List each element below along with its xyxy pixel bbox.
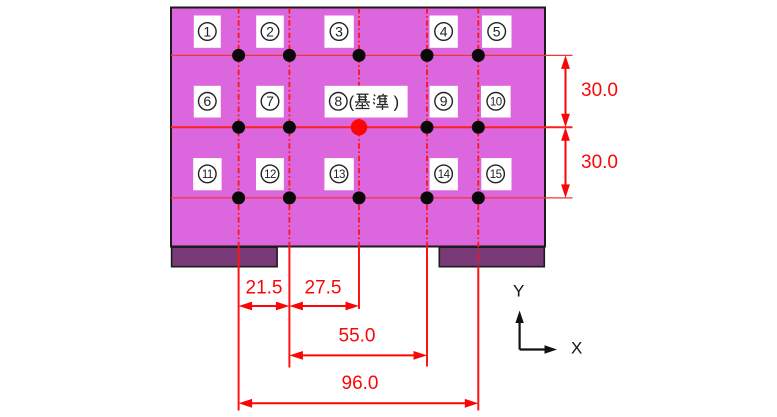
svg-text:15: 15 [490, 169, 502, 181]
measurement dot row3 c1 [232, 191, 245, 204]
svg-text:12: 12 [264, 169, 276, 181]
kanji 基 [355, 94, 370, 108]
dimension 55.0 (L2 to L4) [289, 351, 427, 360]
svg-text:27.5: 27.5 [305, 278, 342, 299]
grid row line 1 [171, 54, 573, 56]
svg-text:14: 14 [438, 169, 451, 181]
dimension 27.5 (L2 to L3) [289, 302, 359, 311]
measurement dot row1 c4 [421, 49, 434, 62]
svg-text:4: 4 [440, 23, 448, 39]
point label 2 [256, 16, 284, 48]
measurement dot row1 c2 [283, 49, 296, 62]
point label 14 [430, 158, 458, 190]
svg-text:8: 8 [334, 93, 342, 109]
plate body [171, 8, 545, 247]
measurement dot row1 c3 [353, 49, 366, 62]
svg-text:(: ( [349, 93, 355, 112]
svg-text:30.0: 30.0 [581, 152, 618, 173]
coordinate axis Y [515, 311, 523, 350]
reference point dot (red, point 8) [351, 119, 367, 135]
svg-text:3: 3 [335, 23, 343, 39]
centerline L4 [426, 8, 428, 367]
measurement dot row1 c1 [232, 49, 245, 62]
measurement dot row2 c2 [283, 121, 296, 134]
centerline L3 [358, 8, 360, 309]
measurement dot row3 c5 [472, 191, 485, 204]
point label 3 [324, 16, 353, 48]
measurement dot row2 c4 [421, 121, 434, 134]
svg-text:Y: Y [513, 282, 524, 301]
svg-text:21.5: 21.5 [246, 278, 283, 299]
point label 1 [194, 16, 221, 48]
grid row line 2 (center) [171, 126, 573, 128]
dimension 30.0 lower (row2 to row3) [561, 127, 570, 198]
measurement dot row3 c2 [283, 191, 296, 204]
measurement dot row1 c5 [472, 49, 485, 62]
point label 7 [256, 86, 284, 118]
centerline L5 [477, 8, 479, 411]
measurement dot row3 c3 [353, 191, 366, 204]
svg-text:1: 1 [203, 23, 211, 39]
svg-text:6: 6 [203, 93, 211, 109]
left foot [172, 247, 278, 267]
svg-text:96.0: 96.0 [342, 373, 379, 394]
right foot [439, 247, 544, 267]
centerline L2 [288, 8, 290, 368]
measurement dot row3 c4 [421, 191, 434, 204]
point label 6 [194, 86, 221, 118]
svg-text:30.0: 30.0 [581, 80, 618, 101]
svg-text:10: 10 [490, 96, 502, 108]
centerline L1 [238, 8, 240, 411]
svg-text:): ) [394, 93, 400, 112]
svg-text:7: 7 [266, 93, 274, 109]
point label 15 [481, 158, 511, 190]
point label 5 [482, 16, 512, 48]
dimension 96.0 (L1 to L5) [239, 399, 479, 408]
point label 9 [430, 86, 458, 118]
svg-text:5: 5 [493, 23, 501, 39]
svg-text:2: 2 [266, 23, 274, 39]
measurement dot row2 c1 [232, 121, 245, 134]
point label 4 [430, 16, 458, 48]
svg-text:55.0: 55.0 [339, 326, 376, 347]
svg-text:X: X [571, 339, 582, 358]
point label 8 (reference) with text (基準) [325, 86, 408, 118]
point label 12 [256, 158, 284, 190]
kanji 準 [373, 94, 388, 110]
point label 13 [324, 158, 353, 190]
point label 11 [193, 158, 221, 190]
measurement dot row2 c5 [472, 121, 485, 134]
svg-text:11: 11 [202, 169, 213, 181]
coordinate axis X [520, 345, 557, 353]
point label 10 [481, 86, 511, 118]
grid row line 3 [171, 197, 573, 199]
svg-text:9: 9 [440, 93, 448, 109]
dimension 30.0 upper (row1 to row2) [561, 55, 570, 127]
svg-text:13: 13 [333, 169, 345, 181]
dimension 21.5 (L1 to L2) [239, 302, 290, 311]
